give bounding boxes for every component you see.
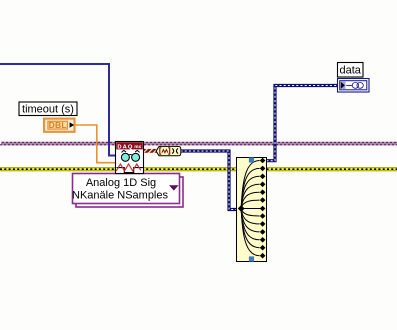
- svg-text:DBL: DBL: [49, 120, 67, 130]
- polymorphic VI selector dropdown: [72, 174, 183, 208]
- top blue handle: [249, 157, 254, 162]
- wire: number of samples (blue solid, from left edge to DAQmx Read): [0, 64, 116, 156]
- wire: error cluster (yellow/black dashed, full width): [0, 167, 397, 171]
- wire: dynamic data (navy dashed, fan node output up to data terminal): [267, 86, 338, 161]
- wire: timeout (orange, DBL terminal to DAQmx Read): [75, 125, 116, 163]
- fan curves: [241, 161, 259, 209]
- svg-text:mx: mx: [134, 145, 141, 150]
- svg-text:DAQ: DAQ: [117, 144, 132, 150]
- converter node: waveform array to dynamic data: [156, 146, 181, 155]
- fan node (split signals): [237, 157, 267, 261]
- red analog waveform: [116, 164, 141, 171]
- bottom blue handle: [249, 256, 254, 261]
- label: data: [338, 63, 364, 78]
- svg-text:timeout (s): timeout (s): [22, 103, 74, 115]
- input diamond: [238, 205, 245, 212]
- indicator terminal: data (dynamic data): [338, 79, 370, 93]
- wire: DAQmx task (purple zigzag, full width): [0, 142, 397, 145]
- label: timeout (s): [19, 102, 77, 116]
- output diamonds: [260, 158, 266, 164]
- wire: dynamic data (navy dashed, converter to fan node input): [181, 151, 237, 210]
- black square wave: [117, 168, 143, 173]
- glasses: [121, 153, 129, 161]
- control terminal: DBL (timeout): [44, 119, 74, 132]
- svg-text:data: data: [339, 64, 361, 76]
- svg-text:Analog 1D Sig: Analog 1D Sig: [86, 177, 156, 189]
- wire: waveform array (candy stripe, DAQmx Read to converter): [144, 149, 158, 153]
- svg-text:NKanäle NSamples: NKanäle NSamples: [72, 190, 168, 202]
- DAQmx Read VI icon U1: [116, 142, 144, 174]
